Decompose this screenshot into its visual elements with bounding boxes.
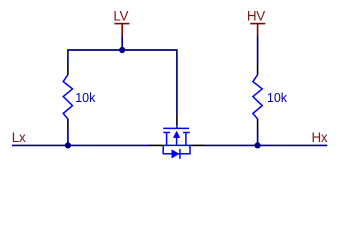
- svg-text:Lx: Lx: [12, 130, 26, 145]
- svg-text:LV: LV: [113, 9, 128, 24]
- svg-text:10k: 10k: [267, 91, 288, 105]
- svg-text:Hx: Hx: [312, 130, 328, 145]
- svg-text:HV: HV: [247, 9, 265, 24]
- svg-text:10k: 10k: [75, 91, 96, 105]
